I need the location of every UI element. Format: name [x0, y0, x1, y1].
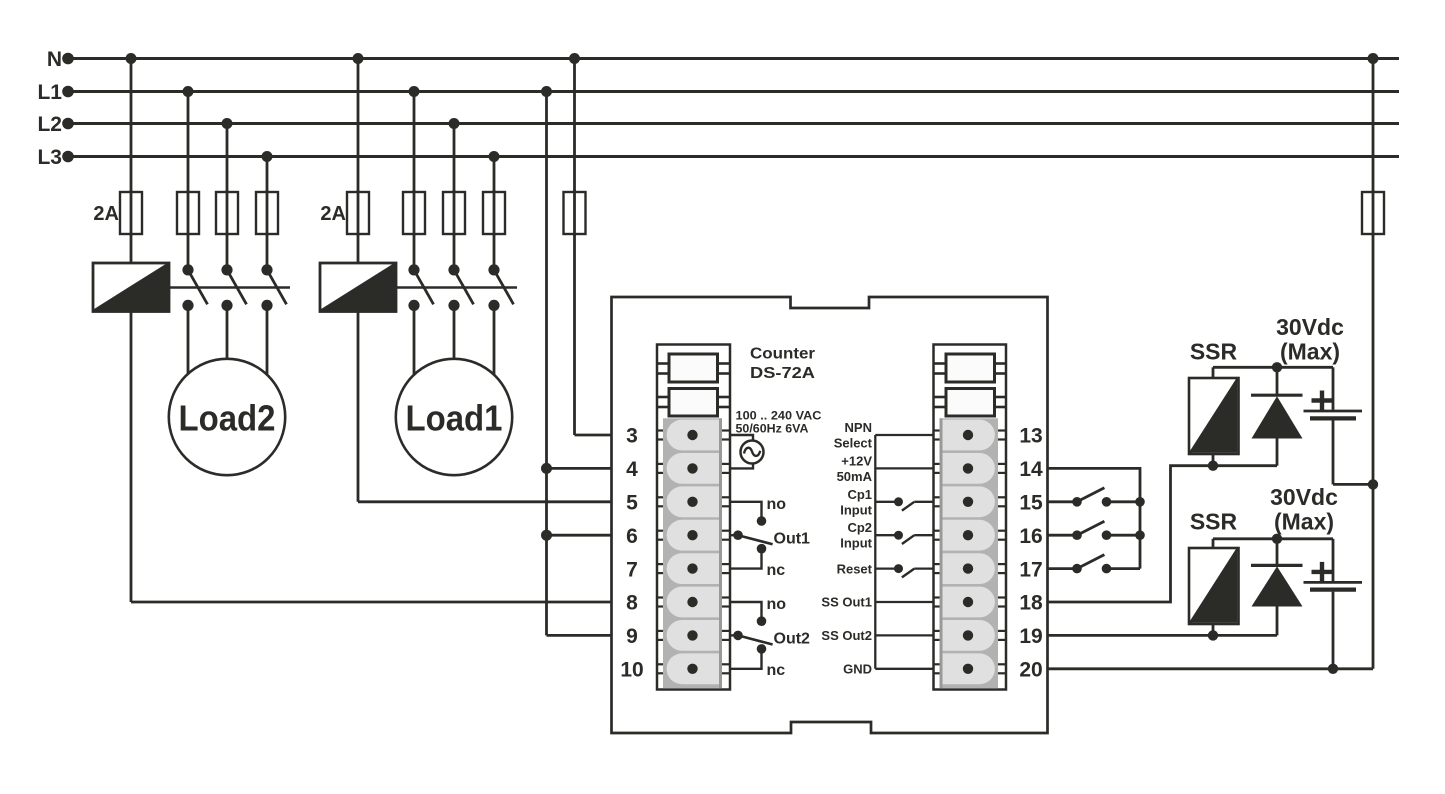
svg-text:17: 17	[1019, 558, 1042, 581]
svg-text:9: 9	[626, 625, 638, 648]
svg-text:16: 16	[1019, 525, 1042, 548]
svg-text:L1: L1	[37, 81, 62, 104]
svg-text:Cp1: Cp1	[847, 487, 872, 502]
svg-text:SS Out1: SS Out1	[821, 595, 872, 610]
svg-text:L2: L2	[37, 113, 62, 136]
svg-text:no: no	[767, 496, 787, 513]
svg-text:Reset: Reset	[837, 561, 873, 576]
svg-text:SS Out2: SS Out2	[821, 628, 872, 643]
svg-text:Load1: Load1	[406, 397, 503, 438]
svg-text:14: 14	[1019, 458, 1043, 481]
svg-text:50mA: 50mA	[837, 469, 873, 484]
svg-text:13: 13	[1019, 425, 1042, 448]
svg-text:18: 18	[1019, 592, 1043, 615]
svg-text:15: 15	[1019, 492, 1043, 515]
svg-text:NPN: NPN	[845, 420, 872, 435]
svg-text:6: 6	[626, 525, 638, 548]
svg-text:19: 19	[1019, 625, 1042, 648]
svg-text:5: 5	[626, 492, 638, 515]
svg-text:Out2: Out2	[774, 631, 811, 648]
svg-text:SSR: SSR	[1190, 509, 1238, 535]
svg-text:3: 3	[626, 425, 638, 448]
svg-text:nc: nc	[767, 562, 786, 579]
svg-text:+12V: +12V	[841, 453, 872, 468]
svg-text:DS-72A: DS-72A	[750, 365, 816, 382]
svg-text:Input: Input	[840, 502, 872, 517]
svg-text:(Max): (Max)	[1280, 339, 1340, 365]
svg-text:100 .. 240 VAC: 100 .. 240 VAC	[736, 411, 822, 423]
svg-text:nc: nc	[767, 662, 786, 679]
svg-text:L3: L3	[37, 146, 62, 169]
svg-text:2A: 2A	[320, 203, 346, 225]
svg-text:Counter: Counter	[750, 345, 815, 362]
svg-text:7: 7	[626, 558, 638, 581]
svg-text:no: no	[767, 596, 787, 613]
svg-text:Out1: Out1	[774, 530, 811, 547]
svg-text:Select: Select	[834, 436, 873, 451]
svg-text:SSR: SSR	[1190, 339, 1238, 365]
svg-text:2A: 2A	[93, 203, 119, 225]
svg-text:4: 4	[626, 458, 638, 481]
svg-text:(Max): (Max)	[1274, 509, 1334, 535]
svg-text:Input: Input	[840, 536, 872, 551]
svg-text:30Vdc: 30Vdc	[1276, 314, 1344, 340]
svg-text:Load2: Load2	[179, 397, 276, 438]
svg-text:GND: GND	[843, 662, 872, 677]
svg-text:30Vdc: 30Vdc	[1270, 484, 1338, 510]
svg-text:8: 8	[626, 592, 638, 615]
svg-text:Cp2: Cp2	[847, 520, 872, 535]
svg-text:N: N	[47, 48, 62, 71]
svg-text:20: 20	[1019, 659, 1042, 682]
svg-text:10: 10	[620, 659, 643, 682]
